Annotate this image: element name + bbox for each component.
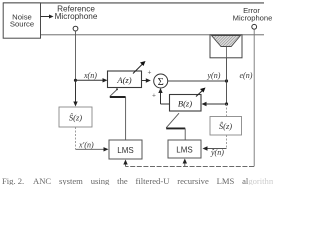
svg-text:e(n): e(n) — [240, 71, 253, 80]
node Error Microphone label — [233, 6, 273, 23]
noise source box — [3, 3, 40, 38]
svg-text:Source: Source — [10, 20, 34, 29]
adaptive filter B(z) — [170, 88, 206, 112]
wire junction up to loudspeaker — [226, 58, 228, 81]
wire reference mic down to x(n) node — [75, 31, 77, 80]
wire error mic down — [253, 29, 255, 166]
LMS 2 — [168, 140, 201, 158]
wire into B(z) right side — [202, 102, 227, 106]
secondary path estimate S^(z) left — [59, 107, 92, 127]
node Reference Microphone label — [55, 4, 98, 21]
wire e(n) up into LMS2 — [183, 159, 187, 167]
svg-text:+: + — [148, 69, 152, 77]
svg-text:ŷ(n): ŷ(n) — [210, 148, 224, 157]
wire e(n) feedback bottom — [126, 166, 255, 168]
summer sigma — [154, 74, 168, 88]
wire sigma output y(n) to speaker junction — [168, 80, 227, 82]
wire B(z) output left and up to sigma with plus — [152, 88, 169, 104]
reference microphone — [73, 26, 78, 31]
svg-text:LMS: LMS — [176, 146, 192, 155]
svg-text:Ŝ(z): Ŝ(z) — [69, 113, 82, 123]
wire arrow noise source to reference microphone label — [41, 15, 54, 19]
wire duct top wall — [3, 2, 264, 4]
loudspeaker — [210, 35, 242, 58]
node junction y(n) — [225, 79, 228, 82]
svg-text:LMS: LMS — [117, 146, 133, 155]
svg-text:B(z): B(z) — [178, 99, 192, 109]
wire S1hat output down-right to LMS1, label x'(n) — [76, 127, 109, 152]
svg-text:x(n): x(n) — [83, 71, 97, 80]
node x(n) junction — [74, 79, 77, 82]
svg-text:A(z): A(z) — [116, 75, 131, 85]
weight update arrow LMS1 to A(z) — [110, 88, 126, 140]
wire x(n) down into S1hat — [73, 80, 77, 106]
svg-text:+: + — [152, 92, 156, 100]
error microphone — [252, 24, 257, 29]
svg-text:Microphone: Microphone — [233, 14, 273, 23]
adaptive filter A(z) — [108, 61, 146, 88]
wire A(z) to sigma with plus — [142, 69, 152, 83]
svg-text:Microphone: Microphone — [55, 12, 98, 21]
wire x(n) to A(z) — [76, 78, 108, 82]
wire junction down to B(z) input junction — [226, 81, 228, 104]
svg-text:ANC system using the filtered-: ANC system using the filtered-U recursiv… — [33, 176, 273, 185]
svg-text:Ŝ(z): Ŝ(z) — [219, 121, 232, 131]
LMS 1 — [109, 140, 142, 159]
wire S2hat output down-left to LMS2 — [203, 135, 227, 151]
secondary path estimate S^(z) right — [210, 117, 242, 136]
wire e(n) up into LMS1 — [123, 160, 127, 167]
svg-text:x′(n): x′(n) — [78, 141, 94, 150]
svg-text:Fig. 2.: Fig. 2. — [2, 176, 24, 185]
wire duct bottom wall — [41, 34, 265, 36]
svg-text:y(n): y(n) — [207, 71, 221, 80]
svg-text:Σ: Σ — [158, 77, 164, 88]
node junction B(z) input — [225, 102, 228, 105]
wire y(n) junction down to S2hat (dashed) — [226, 104, 228, 117]
weight update arrow LMS2 to B(z) — [166, 113, 185, 140]
